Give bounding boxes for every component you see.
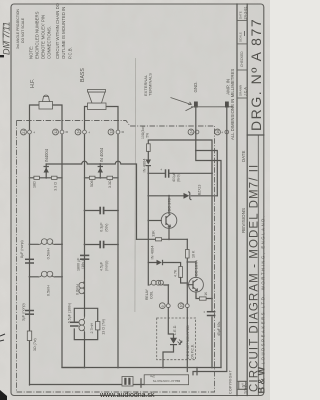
molex terminal pin 4 (BASS-) — [108, 129, 124, 135]
speaker H.F. tweeter — [39, 95, 53, 109]
resistor R7 10R 3W sense — [141, 126, 150, 151]
resistor R5 3R 7W — [27, 331, 37, 351]
zener diode Z1 — [148, 151, 217, 200]
resistor R6 13R 7W (notch) — [96, 319, 106, 335]
wire: HF+ rail W1 — [30, 105, 40, 385]
wire: GND down from post — [196, 108, 221, 375]
title block: divider between title and company — [257, 135, 259, 396]
capacitor C4 4.5uF — [85, 241, 119, 271]
external terminal GND (binding post) — [191, 102, 233, 108]
edge marks bottom-left — [0, 390, 7, 400]
relay contacts box — [141, 374, 189, 387]
diode D4 1N4004 — [148, 245, 180, 267]
wire: BASS+ rail W3 — [85, 107, 89, 368]
inductor L1 0.5mH (HF) — [38, 239, 55, 260]
inductor L2 0.5mH (HF) — [38, 271, 55, 296]
wire: AMP down from post — [193, 108, 227, 375]
molex terminal pin 5 (GND) — [188, 129, 199, 135]
molex pin pair A (LED feed) — [159, 303, 170, 309]
molex terminal pin 6 (AMP) — [215, 129, 229, 135]
capacitor C5 1800uF 16v electrolytic — [77, 255, 90, 271]
edge mark top-left — [0, 55, 4, 57]
svg-text:www.audiodna.sk: www.audiodna.sk — [99, 392, 155, 399]
resistor R2 3.3R — [52, 176, 58, 179]
relay coil RLA — [145, 280, 168, 303]
cell divider checked/drawn — [237, 69, 247, 71]
wire: BASS L-pad line — [85, 177, 119, 179]
contact strip component — [122, 377, 133, 387]
wire: inductor bridge 1 — [30, 243, 63, 245]
LED D5 — [163, 308, 182, 368]
diode D3 1N4004 (sense rectifier) — [142, 152, 152, 286]
inductor L4 2.7mH (notch) — [79, 308, 94, 339]
resistor R11 1K emitter — [196, 291, 212, 300]
cell divider date/scale — [237, 19, 247, 21]
wire: Q2 collector to zener line — [187, 262, 196, 277]
inductor L3 0.6mH (BASS series) — [75, 279, 84, 296]
molex terminal pin 2 (HF-) — [53, 129, 68, 135]
notch filter box wires — [74, 308, 97, 339]
DRG box bottom divider — [247, 134, 264, 136]
resistor R1 18R — [34, 176, 40, 179]
wire: lower bus to relay contacts — [30, 384, 145, 386]
wire: bottom bus — [62, 367, 221, 369]
resistor R8 33K (base) — [137, 230, 188, 241]
wire: BASS- rail W4 — [106, 107, 119, 368]
speaker BASS woofer — [88, 90, 107, 110]
transistor Q2 BC107A — [187, 260, 203, 297]
resistor R9 10K — [186, 239, 196, 305]
wire: inductor bridge 2 — [30, 276, 63, 278]
wire: HF L-pad line — [30, 177, 63, 179]
resistor R3 5R6 — [89, 176, 95, 179]
resistor R4 3R3 — [107, 176, 113, 179]
capacitor C8 45uF 63v electrolytic — [203, 311, 221, 336]
cell divider drawn bottom — [237, 97, 247, 99]
wire: detect line with hops — [46, 161, 136, 239]
capacitor C7 400uF 6v3 electrolytic — [148, 168, 212, 182]
capacitor C6 6.5uF (notch) — [68, 303, 79, 326]
cell divider scale/checked — [237, 43, 247, 45]
Nº header box — [239, 381, 246, 389]
molex terminal pin 3 (BASS+) — [75, 129, 91, 135]
paper crease artifact — [134, 58, 137, 312]
capacitor C3 0.3uF 63v — [85, 207, 119, 232]
title block: vertical rule 2 — [246, 4, 248, 396]
wire: pin B down to relay box — [186, 308, 188, 372]
capacitor C2 3uF nonpolar — [22, 303, 34, 321]
resistor R10 47K — [174, 267, 188, 284]
sheet border frame — [11, 4, 264, 396]
molex pin pair B — [178, 303, 189, 309]
scan noise overlay — [0, 0, 1, 1]
LED dashed enclosure — [157, 318, 196, 360]
wire: HF- rail W2 — [53, 105, 85, 368]
external terminal AMP (binding post) — [225, 102, 229, 108]
transistor Q1 BC178 — [148, 196, 177, 240]
molex terminal pin 1 (HF+) — [21, 129, 37, 135]
diode D2 1N4004 — [98, 147, 105, 178]
arrow to external terminals — [171, 98, 194, 111]
PCB chain-dot outline — [17, 121, 215, 393]
capacitor C1 8uF nonpolar — [20, 240, 34, 263]
wire: sense line from amp tap — [148, 140, 212, 368]
diode D1 1N4004 — [44, 148, 50, 178]
title block: vertical rule 1 — [236, 4, 238, 396]
